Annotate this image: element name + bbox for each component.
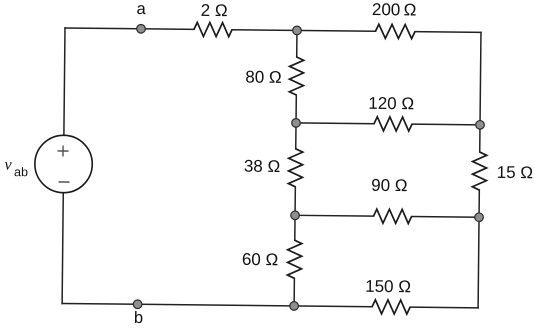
svg-text:38 Ω: 38 Ω bbox=[244, 157, 281, 176]
svg-text:80 Ω: 80 Ω bbox=[245, 67, 282, 86]
svg-text:2 Ω: 2 Ω bbox=[201, 1, 228, 20]
svg-text:ab: ab bbox=[14, 165, 28, 179]
svg-text:200 Ω: 200 Ω bbox=[372, 0, 417, 19]
svg-text:v: v bbox=[4, 156, 12, 173]
svg-text:150 Ω: 150 Ω bbox=[365, 277, 411, 296]
svg-text:15 Ω: 15 Ω bbox=[497, 163, 534, 182]
svg-text:60 Ω: 60 Ω bbox=[242, 250, 279, 269]
svg-text:b: b bbox=[134, 309, 143, 327]
svg-text:90 Ω: 90 Ω bbox=[371, 176, 408, 195]
svg-text:a: a bbox=[137, 0, 147, 18]
svg-text:120 Ω: 120 Ω bbox=[368, 94, 414, 113]
